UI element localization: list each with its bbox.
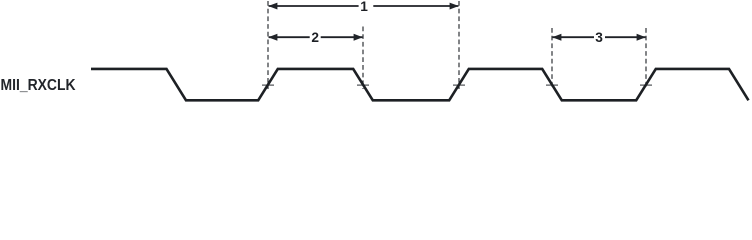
dimension arrow 1 line right segment [373, 5, 458, 7]
dashed reference line D5 (rising-edge crossing, end of 3) [645, 28, 647, 89]
dimension arrow 2 (pulse duration high) line left segment [269, 36, 310, 38]
crossing tick at D1 [262, 84, 274, 86]
svg-text:MII_RXCLK: MII_RXCLK [1, 77, 76, 94]
dimension arrow 1 (clock period) line left segment [269, 5, 359, 7]
arrowhead 3 left [552, 34, 561, 41]
arrowhead 1 left [268, 3, 277, 10]
crossing tick at D3 [453, 84, 465, 86]
crossing tick at D5 [640, 84, 652, 86]
dashed reference line D4 (falling-edge crossing, start of 3) [551, 28, 553, 89]
dimension arrow 3 line right segment [605, 36, 645, 38]
arrowhead 2 right [354, 34, 363, 41]
dimension arrow 2 line right segment [321, 36, 363, 38]
dashed reference line D2 (falling-edge crossing, end of 2) [362, 27, 364, 90]
svg-text:3: 3 [595, 30, 603, 45]
arrowhead 1 right [450, 3, 459, 10]
clock waveform MII_RXCLK [91, 69, 749, 100]
svg-text:1: 1 [360, 0, 368, 14]
arrowhead 2 left [268, 34, 277, 41]
arrowhead 3 right [637, 34, 646, 41]
svg-text:2: 2 [311, 30, 319, 45]
crossing tick at D4 [546, 84, 558, 86]
dimension arrow 3 (pulse duration low) line left segment [553, 36, 594, 38]
dashed reference line D1 (first rising-edge crossing) [267, 1, 269, 89]
dashed reference line D3 (second rising-edge crossing, end of 1) [458, 1, 460, 89]
crossing tick at D2 [357, 84, 369, 86]
